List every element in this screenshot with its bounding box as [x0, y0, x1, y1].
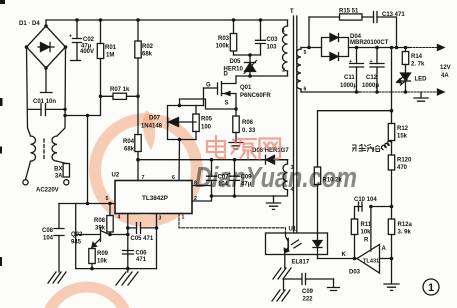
junction C11 top: [355, 46, 359, 50]
capacitor C08: [42, 204, 64, 273]
svg-text:15k: 15k: [397, 134, 408, 140]
capacitor C13: [374, 12, 406, 48]
ground at aux winding: [267, 196, 281, 209]
svg-text:+: +: [370, 59, 373, 65]
transistor Q01 MOSFET: [204, 76, 272, 116]
svg-text:TL3842P: TL3842P: [142, 195, 168, 202]
wire snubber riser: [308, 17, 310, 48]
wire output rail 12V: [349, 47, 411, 49]
earth ground C09b left: [272, 279, 290, 301]
svg-text:BX: BX: [54, 167, 62, 173]
svg-text:G: G: [206, 83, 211, 89]
transistor Q02: [71, 228, 112, 248]
svg-text:3A: 3A: [55, 174, 63, 180]
plug terminal right: [64, 180, 69, 185]
watermark ring logo center: [95, 119, 197, 221]
svg-text:100: 100: [201, 125, 212, 131]
scan edge artifacts: [0, 0, 5, 266]
svg-text:6: 6: [172, 175, 175, 181]
svg-text:R09: R09: [97, 251, 109, 257]
svg-text:U2: U2: [112, 173, 120, 179]
svg-text:C12: C12: [366, 75, 378, 81]
svg-text:D05: D05: [230, 59, 242, 65]
plug terminal left: [23, 180, 28, 185]
watermark text dian yuan wang (drawn strokes): [207, 136, 280, 159]
wire pin1 to opto: [179, 214, 286, 234]
svg-text:DianYuan.com: DianYuan.com: [195, 162, 357, 194]
svg-text:5: 5: [106, 196, 109, 202]
ground under R06: [229, 143, 243, 150]
svg-text:R: R: [364, 238, 369, 244]
wire pin8 stub: [192, 185, 212, 187]
svg-text:S: S: [225, 101, 229, 107]
capacitor C09b 222: [284, 274, 334, 303]
wire 0V rail: [301, 91, 360, 93]
junction VCC rail R04: [136, 158, 140, 162]
junction C11 bottom: [355, 90, 359, 94]
svg-text:C06: C06: [136, 251, 148, 257]
svg-text:C08: C08: [42, 228, 54, 234]
svg-text:2: 2: [282, 68, 285, 74]
wire pin2 stub: [192, 180, 212, 201]
transformer T primary winding: [282, 20, 287, 76]
svg-text:C05 471: C05 471: [131, 236, 154, 242]
resistor R01: [97, 18, 116, 96]
opto U1 EL817 box: [266, 227, 328, 266]
earth ground under pin4 rail: [116, 269, 138, 285]
junction AC-right / B-minus: [63, 114, 66, 117]
svg-text:3: 3: [159, 216, 162, 222]
bridge negative stub: [41, 68, 53, 93]
ground C09b right: [328, 279, 340, 291]
svg-text:C01 10n: C01 10n: [33, 99, 56, 105]
diode D07: [141, 116, 196, 130]
wire pin3 vertical: [156, 214, 158, 269]
svg-text:3. 9k: 3. 9k: [398, 230, 412, 236]
wire choke to plug left: [26, 161, 31, 179]
wire sense line: [180, 99, 237, 109]
transformer core: [294, 16, 297, 233]
capacitor C01: [28, 99, 67, 116]
resistor R10: [314, 167, 342, 233]
watermark leaf: [143, 110, 156, 150]
resistor R12: [388, 111, 408, 143]
capacitor C10: [354, 197, 392, 219]
svg-text:P6NC60FR: P6NC60FR: [240, 93, 271, 99]
svg-text:R07 1k: R07 1k: [110, 87, 130, 93]
earth ground under C08: [48, 272, 66, 283]
svg-text:+: +: [69, 34, 72, 40]
svg-text:D1 · D4: D1 · D4: [19, 21, 40, 27]
svg-text:R15 51: R15 51: [339, 9, 359, 15]
resistor R12a: [388, 207, 412, 259]
svg-text:C03: C03: [267, 37, 279, 43]
svg-text:C11: C11: [344, 75, 355, 81]
svg-text:D: D: [224, 72, 229, 78]
capacitor C02: [69, 18, 95, 60]
svg-text:1000μ: 1000μ: [362, 83, 379, 89]
choke core dashed: [43, 139, 45, 160]
wire output rail dashed: [410, 47, 437, 49]
svg-text:7: 7: [142, 175, 145, 181]
svg-text:68k: 68k: [124, 147, 135, 153]
regulator D03 TL431: [318, 207, 394, 276]
wire pin5 gnd bus: [59, 203, 115, 205]
gate drive loop wires: [168, 106, 204, 140]
svg-text:470: 470: [397, 165, 408, 171]
svg-text:1000μ: 1000μ: [340, 83, 357, 89]
resistor R02: [135, 18, 154, 96]
HV+ top rail: [46, 19, 288, 21]
resistor R05: [193, 106, 213, 140]
fuse BX 3A: [54, 161, 69, 179]
wire clamp bottom: [234, 54, 261, 56]
opto LED: [313, 233, 322, 259]
svg-text:1: 1: [428, 282, 434, 294]
op-amp U2 TL3842P body: [106, 173, 198, 222]
resistor R06: [233, 116, 256, 142]
junction R14 top: [404, 46, 408, 50]
wire left AC line: [27, 47, 31, 136]
svg-text:R120: R120: [397, 158, 412, 164]
svg-text:U1: U1: [289, 227, 297, 233]
arrow output return: [438, 89, 445, 95]
svg-text:68k: 68k: [142, 52, 153, 58]
wire R10 branch: [318, 111, 392, 167]
capacitor C11: [340, 48, 364, 93]
junction pin4 C05: [126, 226, 130, 230]
resistor R09: [89, 247, 109, 270]
junction C12 top: [375, 46, 379, 50]
wire secondary pin5 to node: [301, 47, 322, 49]
svg-text:R12a: R12a: [398, 222, 413, 228]
junction secondary node: [307, 46, 311, 50]
junction pin4 Q02 collector: [126, 233, 130, 237]
svg-text:R11: R11: [361, 222, 372, 228]
junction gnd bus B-minus: [86, 202, 90, 206]
dual diode D04: [322, 34, 389, 61]
junction gnd line pin8-pin2: [210, 194, 214, 198]
capacitor C07: [207, 160, 230, 188]
ground on 0V rail: [414, 92, 428, 101]
capacitor C09 47u: [228, 160, 252, 196]
svg-text:R12: R12: [397, 126, 409, 132]
svg-text:K: K: [342, 252, 347, 258]
svg-text:A: A: [382, 246, 387, 252]
svg-text:222: 222: [303, 297, 314, 303]
capacitor C05: [128, 223, 159, 243]
svg-text:R08: R08: [94, 218, 106, 224]
svg-text:R02: R02: [142, 44, 154, 50]
svg-text:D03: D03: [349, 270, 361, 276]
svg-text:D07: D07: [149, 116, 161, 122]
svg-text:R03: R03: [218, 36, 230, 42]
capacitor C12: [362, 48, 384, 93]
svg-text:C09: C09: [302, 289, 314, 295]
svg-text:R04: R04: [123, 139, 135, 145]
resistor R07: [99, 87, 140, 99]
junction C13 return: [395, 46, 399, 50]
junction B-minus bus: [86, 114, 89, 117]
svg-text:2. 7k: 2. 7k: [411, 62, 425, 68]
svg-text:0. 33: 0. 33: [242, 128, 256, 134]
capacitor C06: [123, 251, 148, 264]
junction R10 branch: [390, 109, 394, 113]
watermark ring bottom-left: [45, 287, 129, 308]
junction LED bottom: [404, 90, 408, 94]
svg-text:103: 103: [267, 45, 278, 51]
svg-text:1M: 1M: [106, 53, 114, 59]
wire Q02 left leg: [76, 204, 157, 269]
svg-text:TL431: TL431: [363, 259, 379, 265]
svg-text:MBR20100CT: MBR20100CT: [350, 40, 389, 46]
ground TL431 anode: [384, 259, 399, 291]
wire B-minus down bus: [87, 116, 89, 204]
svg-text:LED: LED: [415, 77, 428, 83]
common-mode choke L right winding: [52, 136, 57, 161]
wire B-minus return: [65, 96, 101, 115]
wire gnd line right of IC: [212, 195, 274, 197]
svg-text:1: 1: [182, 215, 185, 221]
resistor R120: [388, 155, 412, 207]
transformer secondary winding: [297, 48, 307, 93]
diode D05: [224, 53, 257, 78]
wire pin6 drive: [178, 140, 181, 181]
svg-text:R01: R01: [105, 45, 117, 51]
svg-text:104: 104: [43, 236, 54, 242]
svg-text:C10 104: C10 104: [354, 197, 377, 203]
junction C09 bottom: [233, 194, 237, 198]
circled 1: [423, 279, 439, 295]
resistor R04: [123, 96, 141, 180]
svg-text:Q02: Q02: [71, 232, 83, 238]
svg-text:EL817: EL817: [292, 260, 310, 266]
resistor R11: [351, 219, 372, 259]
LED: [397, 65, 427, 93]
svg-text:R06: R06: [242, 120, 254, 126]
svg-text:AC220V: AC220V: [36, 188, 59, 194]
svg-text:10k: 10k: [97, 259, 108, 265]
junction pin5 gnd bus R08: [108, 202, 112, 206]
svg-text:400V: 400V: [80, 49, 94, 55]
junction VCC rail C09: [233, 158, 237, 162]
svg-text:1: 1: [282, 28, 285, 34]
svg-text:12V: 12V: [440, 65, 451, 71]
diode D06: [235, 148, 290, 164]
junction pin4 bottom rail: [126, 267, 130, 271]
node feedback lower: [390, 205, 394, 209]
junction VCC rail C07: [210, 158, 214, 162]
transformer aux winding: [274, 160, 294, 196]
resistor R03: [216, 18, 237, 55]
resistor R14: [402, 48, 425, 68]
VCC rail: [138, 159, 288, 161]
svg-text:R05: R05: [201, 117, 213, 123]
svg-text:T: T: [290, 9, 294, 15]
svg-text:1N4148: 1N4148: [141, 124, 163, 130]
wire 0V rail dashed: [360, 91, 437, 93]
svg-text:4: 4: [118, 215, 121, 221]
opto phototransistor: [284, 233, 301, 255]
svg-text:10k: 10k: [361, 230, 372, 236]
junction source sense node: [234, 107, 238, 111]
junction gate loop top: [178, 104, 182, 108]
svg-text:C02: C02: [83, 37, 95, 43]
junction C12 bottom: [375, 90, 379, 94]
resistor R15: [309, 9, 374, 20]
lead coil yinxianraohe: [353, 141, 392, 155]
capacitor C03: [256, 18, 279, 55]
svg-text:100k: 100k: [216, 44, 230, 50]
arrow output plus: [438, 45, 445, 51]
svg-text:4A: 4A: [441, 73, 449, 79]
svg-text:Q01: Q01: [240, 85, 252, 91]
wire feedback drop: [391, 48, 393, 111]
junction gate loop bottom: [178, 138, 182, 142]
svg-text:5: 5: [304, 50, 307, 56]
svg-text:R14: R14: [411, 54, 423, 60]
svg-text:471: 471: [136, 257, 147, 263]
resistor R08: [94, 204, 113, 235]
junction feedback top: [390, 46, 394, 50]
opto emitter ground: [273, 255, 291, 280]
wire right AC line: [57, 47, 66, 136]
wire gate drop: [203, 88, 205, 106]
wire Q02 collector to pin4 line: [110, 234, 128, 236]
svg-text:+: +: [349, 59, 352, 65]
wire pin4 vertical: [127, 214, 129, 269]
svg-text:C13 471: C13 471: [382, 12, 405, 18]
common-mode choke L left winding: [31, 136, 36, 161]
bridge rectifier D1-D4: [19, 20, 67, 70]
wire drain node: [236, 75, 288, 77]
